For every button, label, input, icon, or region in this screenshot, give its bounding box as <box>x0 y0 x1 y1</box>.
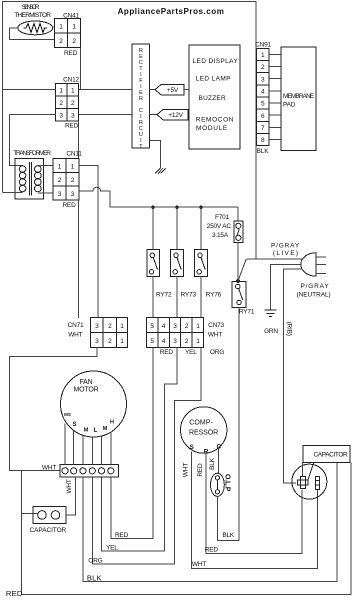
svg-text:2: 2 <box>71 177 75 184</box>
wire: fan capacitor to strip <box>66 477 75 515</box>
svg-text:2: 2 <box>59 38 63 45</box>
svg-text:3: 3 <box>71 112 75 119</box>
connector CN41 <box>54 13 80 57</box>
wire: main frame LIVE loop (top + left) <box>3 2 257 259</box>
svg-text:3: 3 <box>173 338 177 345</box>
svg-text:RED: RED <box>6 589 23 598</box>
svg-text:L: L <box>94 428 98 434</box>
svg-text:M: M <box>84 428 89 434</box>
wire: capacitor top lead to label box <box>302 463 304 477</box>
svg-text:RED: RED <box>160 349 174 356</box>
capacitor C2 (fan) <box>30 507 67 534</box>
svg-text:S: S <box>72 422 76 428</box>
svg-text:COMP-: COMP- <box>189 420 213 427</box>
wire: thermistor right lead to CN41 pin1 <box>53 26 55 28</box>
wire: BLK long from strip to capacitor box <box>83 463 337 582</box>
svg-text:LED DISPLAY: LED DISPLAY <box>193 58 239 65</box>
svg-text:BLK: BLK <box>87 573 102 582</box>
svg-text:F701: F701 <box>215 214 230 221</box>
wire: capacitor tap <box>22 513 38 515</box>
svg-text:RED: RED <box>197 463 204 477</box>
svg-text:P/GRAY: P/GRAY <box>301 283 330 290</box>
sensor thermistor label <box>14 4 51 19</box>
svg-text:CAPACITOR: CAPACITOR <box>314 452 349 459</box>
svg-text:CN12: CN12 <box>63 76 79 83</box>
svg-text:SENSOR: SENSOR <box>22 4 40 11</box>
svg-text:2: 2 <box>72 38 76 45</box>
svg-text:BLK: BLK <box>209 457 216 470</box>
svg-text:1: 1 <box>58 163 62 170</box>
svg-text:WHT: WHT <box>42 464 56 471</box>
wire: CN11 pin3 right with hop to relay bus <box>79 187 238 207</box>
svg-text:THERMISTOR: THERMISTOR <box>14 12 51 19</box>
svg-text:MODULE: MODULE <box>196 125 228 132</box>
node bus junction dots <box>151 205 155 209</box>
wire: neutral RIB down to capacitor <box>284 269 303 483</box>
svg-text:5: 5 <box>261 101 265 108</box>
relay RY76 <box>195 250 222 299</box>
wire: compressor R RED loop to run capacitor <box>206 453 302 553</box>
fuse F701 <box>207 207 243 281</box>
svg-text:3: 3 <box>95 338 99 345</box>
svg-text:3: 3 <box>71 191 75 198</box>
label P/GRAY (NEUTRAL) <box>297 283 331 299</box>
svg-text:AppliancePartsPros.com: AppliancePartsPros.com <box>118 7 225 16</box>
wire: CN11 pin1 right then down to CN71 pin3 <box>79 165 98 317</box>
svg-text:1: 1 <box>71 163 75 170</box>
svg-text:WHT: WHT <box>208 332 222 339</box>
svg-text:WHT: WHT <box>66 479 73 493</box>
wire: thermistor left lead loop to CN41 pin2 <box>9 28 54 40</box>
svg-text:MS: MS <box>64 412 71 417</box>
overload protector O.L.P <box>211 473 231 496</box>
svg-text:4: 4 <box>162 338 166 345</box>
svg-text:O.L.P: O.L.P <box>223 474 230 492</box>
svg-text:REMOCON: REMOCON <box>196 117 234 124</box>
wire: frame to transformer primary bottom <box>3 192 23 194</box>
svg-text:YEL: YEL <box>185 349 197 356</box>
connector CN71 <box>68 318 128 348</box>
svg-text:CN11: CN11 <box>66 150 82 157</box>
wire: CN71 pin3 WHT down-left to strip <box>10 348 97 471</box>
svg-text:WHT: WHT <box>192 561 206 568</box>
svg-text:3: 3 <box>173 323 177 330</box>
fan motor M1 <box>61 371 127 437</box>
wire: CN73 pin5 RED loop to strip <box>111 348 153 539</box>
svg-text:2: 2 <box>185 338 189 345</box>
svg-text:1: 1 <box>196 338 200 345</box>
wire: CN73 pin3 YEL loop to strip <box>102 348 178 552</box>
svg-text:WHT: WHT <box>182 463 189 477</box>
svg-text:P/GRAY: P/GRAY <box>271 243 300 250</box>
wire: CN12 pin3 to transformer primary top <box>9 115 55 166</box>
wire: transformer secondary to CN11 <box>38 165 53 193</box>
svg-text:FAN: FAN <box>79 379 92 386</box>
svg-text:LED LAMP: LED LAMP <box>196 76 231 83</box>
label P/GRAY (LIVE) <box>271 243 300 257</box>
svg-text:(LIVE): (LIVE) <box>273 250 298 257</box>
svg-text:M: M <box>103 426 108 432</box>
wire: CN73 pin1 ORG loop to strip <box>92 348 201 565</box>
wire: LIVE diagonal to RY71 <box>238 259 246 281</box>
wire: motor leads to strip <box>65 424 111 465</box>
svg-text:5: 5 <box>150 338 154 345</box>
relay RY73 <box>171 250 197 299</box>
svg-text:1: 1 <box>59 87 63 94</box>
wire: compressor C down to OLP <box>218 448 220 474</box>
wire: CN41 down to +5V line <box>79 48 81 90</box>
svg-text:7: 7 <box>261 125 265 132</box>
wire: CN12 to CN11 link and down to CN71 <box>78 121 80 318</box>
svg-text:ORG: ORG <box>210 349 224 356</box>
svg-text:RY76: RY76 <box>206 292 222 299</box>
svg-text:WHT: WHT <box>68 332 82 339</box>
svg-text:CN91: CN91 <box>255 41 271 48</box>
wire: neutral to GRN ground <box>271 264 302 309</box>
svg-text:BLK: BLK <box>257 148 270 155</box>
svg-text:RY72: RY72 <box>156 292 172 299</box>
svg-text:2: 2 <box>261 64 265 71</box>
svg-text:4: 4 <box>162 323 166 330</box>
svg-text:1: 1 <box>59 23 63 30</box>
wire: CN12 pin1 right to rectifier <box>79 89 133 91</box>
svg-text:2: 2 <box>108 338 112 345</box>
svg-text:1: 1 <box>196 323 200 330</box>
svg-text:CN71: CN71 <box>68 322 84 329</box>
svg-text:RED: RED <box>62 202 76 209</box>
svg-text:TRANSFORMER: TRANSFORMER <box>13 150 51 157</box>
svg-text:BLK: BLK <box>222 532 235 539</box>
svg-text:H: H <box>110 420 114 426</box>
wire: WHT branch down to capacitor and RED long run <box>22 463 352 595</box>
connector CN73 <box>146 318 224 348</box>
relay RY71 <box>232 282 255 316</box>
svg-text:3: 3 <box>59 112 63 119</box>
node +5V <box>150 85 190 95</box>
wire: frame to CN12 pin1 <box>3 89 56 91</box>
wire: bus drops to relays <box>153 207 201 249</box>
node +12V <box>150 110 189 120</box>
ground chassis at rectifier <box>150 140 166 173</box>
svg-text:(NEUTRAL): (NEUTRAL) <box>297 292 331 299</box>
svg-text:1: 1 <box>72 23 76 30</box>
capacitor C1 body <box>292 463 327 499</box>
terminal strip TB1 <box>60 465 119 478</box>
svg-text:(RIB): (RIB) <box>285 322 292 336</box>
svg-text:RED: RED <box>115 532 129 539</box>
svg-text:R: R <box>139 96 143 102</box>
wire: relays down to CN73 pins 5,3,1 <box>153 277 201 318</box>
relay RY72 <box>147 250 172 299</box>
svg-text:3: 3 <box>58 191 62 198</box>
svg-text:2: 2 <box>59 100 63 107</box>
svg-text:6: 6 <box>261 113 265 120</box>
wire: compressor S WHT loop to run capacitor <box>192 452 318 569</box>
svg-text:PAD: PAD <box>283 102 296 109</box>
svg-text:5: 5 <box>150 323 154 330</box>
wire: CN91 pins to membrane pad <box>269 54 281 139</box>
wire: LIVE from plug <box>246 258 303 260</box>
connector CN12 <box>55 76 79 129</box>
svg-text:250V AC: 250V AC <box>207 223 232 230</box>
node RY71 input junction <box>236 279 240 283</box>
svg-text:4: 4 <box>261 89 265 96</box>
svg-text:MEMBRANE: MEMBRANE <box>283 93 315 100</box>
transformer T1 <box>13 150 51 199</box>
svg-text:3.15A: 3.15A <box>212 232 229 239</box>
connector CN91 <box>255 41 271 155</box>
svg-text:2: 2 <box>108 323 112 330</box>
svg-text:S: S <box>190 444 195 451</box>
svg-text:2: 2 <box>58 177 62 184</box>
rectifier circuit U2 <box>132 44 150 150</box>
svg-text:1: 1 <box>71 87 75 94</box>
membrane pad <box>281 47 316 150</box>
ground GRN <box>264 310 278 335</box>
wire: CN12 pin3 right to rectifier <box>79 114 133 116</box>
connector CN11 <box>53 150 82 209</box>
wire: OLP down to BLK jog <box>216 496 218 540</box>
svg-text:+5V: +5V <box>167 87 179 94</box>
svg-text:1: 1 <box>120 338 124 345</box>
svg-text:RY73: RY73 <box>181 292 197 299</box>
svg-text:8: 8 <box>261 137 265 144</box>
svg-text:GRN: GRN <box>264 328 278 335</box>
LED display module box <box>189 45 240 149</box>
svg-text:3: 3 <box>261 76 265 83</box>
svg-text:RED: RED <box>64 50 78 57</box>
svg-text:YEL: YEL <box>106 545 118 552</box>
wire: RY71 out down to BLK jog <box>217 308 238 541</box>
svg-text:+12V: +12V <box>168 112 183 119</box>
svg-text:3: 3 <box>95 323 99 330</box>
svg-text:1: 1 <box>261 52 265 59</box>
svg-text:2: 2 <box>185 323 189 330</box>
svg-text:RED: RED <box>205 546 219 553</box>
svg-text:ORG: ORG <box>88 558 102 565</box>
plug P1 <box>301 253 326 277</box>
svg-text:CAPACITOR: CAPACITOR <box>30 527 67 534</box>
compressor M2 <box>181 407 227 456</box>
svg-text:1: 1 <box>120 323 124 330</box>
svg-text:CN73: CN73 <box>208 322 224 329</box>
svg-text:MOTOR: MOTOR <box>74 387 99 394</box>
svg-text:RED: RED <box>65 122 79 129</box>
label RED YEL ORG <box>160 349 225 356</box>
svg-text:BUZZER: BUZZER <box>199 95 227 102</box>
thermistor RT <box>18 21 53 35</box>
svg-text:RY71: RY71 <box>239 309 255 316</box>
svg-text:2: 2 <box>71 100 75 107</box>
capacitor C1 (run) label box <box>303 446 350 463</box>
svg-text:RESSOR: RESSOR <box>189 430 218 437</box>
